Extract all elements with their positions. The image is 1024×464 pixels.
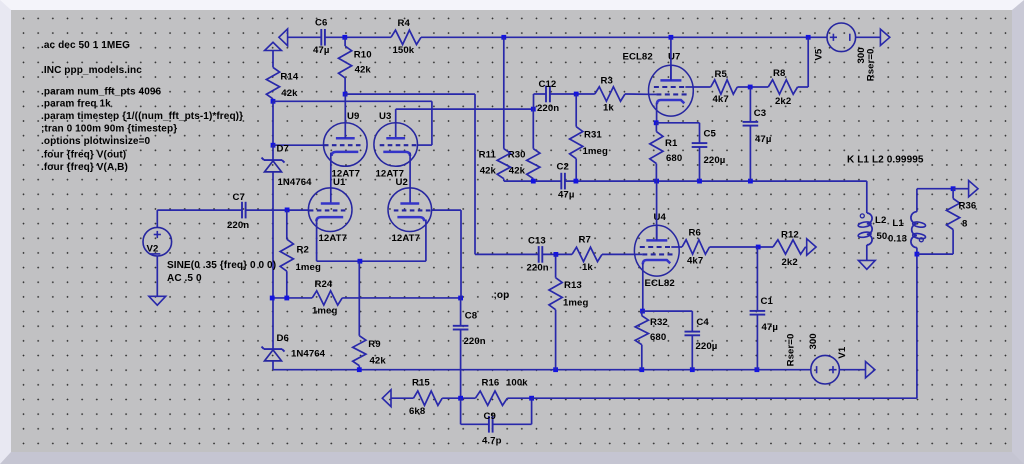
- svg-text:C2: C2: [557, 162, 569, 173]
- svg-text:R15: R15: [412, 378, 430, 389]
- label R11: [479, 150, 497, 161]
- label U7: [668, 52, 680, 63]
- svg-text:K L1 L2 0.99995: K L1 L2 0.99995: [847, 155, 924, 166]
- ground port at C6 input: [279, 29, 288, 46]
- svg-text:42k: 42k: [480, 166, 497, 177]
- wire U3 grid riser: [431, 101, 433, 145]
- value V2 SINE: [167, 260, 276, 271]
- capacitor C9: [489, 416, 493, 433]
- value R15: [409, 406, 426, 417]
- label R5: [715, 69, 728, 80]
- svg-text:1k: 1k: [603, 103, 614, 114]
- directive text ';tran 0 100m 90m {ti': [41, 124, 177, 135]
- wire D7 to D6: [272, 172, 274, 349]
- junction C12/R30: [531, 107, 536, 112]
- junction rail/R11 riser: [501, 35, 506, 40]
- value D7: [278, 177, 313, 188]
- capacitor C8: [453, 326, 469, 330]
- label R16: [482, 378, 500, 389]
- resistor R8: [768, 80, 797, 94]
- svg-text:U7: U7: [668, 52, 680, 63]
- wire U4 plate lead: [656, 181, 658, 240]
- svg-text:R1: R1: [665, 138, 678, 149]
- wire C7 left: [157, 209, 242, 211]
- svg-text:100k: 100k: [506, 378, 528, 389]
- junction R6/R12/C1: [756, 245, 761, 250]
- value L1: [888, 233, 907, 244]
- value R4: [393, 45, 415, 56]
- directive text 'K L1 L2 0.99995': [847, 155, 924, 166]
- resistor R5: [693, 80, 737, 94]
- wire R6 to R12: [710, 246, 774, 248]
- junction C12/R3/R31: [574, 92, 579, 97]
- junction rail/R13: [553, 367, 558, 372]
- svg-text:Rser=0: Rser=0: [785, 334, 796, 367]
- svg-text:;op: ;op: [494, 290, 510, 301]
- wire D column to R24: [272, 297, 312, 299]
- value C12: [537, 103, 559, 114]
- label C7: [233, 192, 245, 203]
- phase dot L1: [919, 238, 923, 242]
- label V1: [837, 346, 848, 358]
- svg-text:220n: 220n: [227, 220, 249, 231]
- output port arrow: [969, 181, 978, 197]
- wire C3 top stub: [749, 87, 751, 122]
- capacitor C6: [321, 29, 325, 46]
- ground left of R15: [382, 390, 391, 407]
- svg-text:R6: R6: [689, 228, 701, 239]
- wire U3 grid stub: [418, 144, 432, 146]
- capacitor C4: [685, 332, 701, 336]
- value D6: [291, 349, 326, 360]
- junction R24/C8/U2 grid: [458, 296, 463, 301]
- svg-text:U1: U1: [333, 177, 346, 188]
- svg-text:12AT7: 12AT7: [319, 233, 347, 244]
- capacitor C13: [539, 246, 543, 263]
- junction R36 top: [951, 186, 956, 191]
- label D7: [277, 143, 289, 154]
- svg-text:47µ: 47µ: [313, 45, 329, 56]
- value R30: [509, 166, 526, 177]
- label U2: [396, 177, 408, 188]
- wire U2 grid stub: [431, 209, 461, 211]
- svg-text:.param num_fft_pts 4096: .param num_fft_pts 4096: [41, 86, 162, 97]
- svg-text:4k7: 4k7: [687, 255, 703, 266]
- label D6: [277, 333, 289, 344]
- label C8: [465, 311, 478, 322]
- svg-text:47µ: 47µ: [762, 322, 778, 333]
- svg-text:V2: V2: [147, 244, 159, 255]
- svg-text:ECL82: ECL82: [645, 278, 675, 289]
- wire L1 bottom lead: [916, 248, 918, 255]
- value C13: [527, 263, 549, 274]
- label V5 Rser: [866, 49, 877, 82]
- svg-text:150k: 150k: [393, 45, 415, 56]
- svg-text:1meg: 1meg: [563, 298, 588, 309]
- svg-text:C9: C9: [484, 411, 496, 422]
- svg-text:50: 50: [877, 231, 888, 242]
- svg-text:8: 8: [962, 219, 968, 230]
- junction rail/R1/U4 plate: [654, 179, 659, 184]
- capacitor C7: [242, 202, 246, 219]
- capacitor C12: [546, 86, 550, 103]
- svg-text:.param timestep {1/((num_fft_p: .param timestep {1/((num_fft_pts-1)*freq…: [41, 111, 243, 122]
- type U7: [623, 52, 653, 63]
- wire C12 drop: [533, 94, 535, 109]
- voltage source V5: [827, 23, 856, 52]
- svg-text:220n: 220n: [464, 336, 486, 347]
- directive text '.options plotwinsize': [41, 136, 151, 147]
- svg-text:2k2: 2k2: [782, 257, 798, 268]
- wire V2 to C7: [156, 210, 158, 227]
- svg-text:1N4764: 1N4764: [278, 177, 313, 188]
- capacitor C5: [692, 143, 708, 147]
- svg-text:R7: R7: [579, 235, 591, 246]
- wire C9 right stub: [493, 423, 532, 425]
- ground right of V1: [866, 362, 875, 378]
- wire C7 to U1 grid: [246, 209, 309, 211]
- label L2: [875, 215, 886, 226]
- pentode U7 (ECL82): [648, 65, 693, 116]
- label R36: [959, 200, 977, 211]
- svg-text:D7: D7: [277, 143, 289, 154]
- wire C9 left stub: [461, 423, 489, 425]
- junction R5/R8/C3: [748, 85, 753, 90]
- svg-text:C6: C6: [315, 18, 327, 29]
- wire U4 cathode lead: [642, 263, 644, 311]
- svg-text:R13: R13: [564, 280, 582, 291]
- value R1: [666, 153, 682, 164]
- voltage source V1: [811, 355, 840, 384]
- svg-text:220n: 220n: [527, 263, 549, 274]
- label C5: [704, 129, 717, 140]
- value R36: [962, 219, 968, 230]
- svg-text:.options plotwinsize=0: .options plotwinsize=0: [41, 136, 151, 147]
- value R9: [370, 355, 387, 366]
- wire C12 left stub: [534, 93, 547, 95]
- svg-text:R5: R5: [715, 69, 728, 80]
- svg-text:42k: 42k: [370, 355, 387, 366]
- value C5: [704, 155, 726, 166]
- triode U2 (12AT7): [388, 188, 432, 232]
- resistor R30: [527, 109, 540, 181]
- junction U7 cathode/R1/C5: [654, 120, 659, 125]
- junction C13/R13/R7: [554, 252, 559, 257]
- wire C9 left drop: [460, 398, 462, 424]
- label V5: [813, 48, 824, 60]
- phase dot L2: [860, 214, 864, 218]
- svg-text:1meg: 1meg: [312, 306, 337, 317]
- svg-text:V5: V5: [813, 48, 824, 60]
- label C13: [528, 236, 546, 247]
- voltage source V2: [143, 227, 172, 256]
- svg-text:680: 680: [650, 332, 666, 343]
- resistor R1: [650, 123, 663, 181]
- value C3: [755, 134, 771, 145]
- wire D7 junction to U9 grid: [273, 144, 324, 146]
- directive text '.four {freq} V(A,B)': [41, 162, 128, 173]
- svg-text:2k2: 2k2: [775, 96, 791, 107]
- ground below L2: [858, 260, 875, 269]
- wire C6 left: [288, 36, 322, 38]
- junction R2/R24: [284, 296, 289, 301]
- label R7: [579, 235, 591, 246]
- wire R16 to L1 column: [532, 397, 917, 399]
- wire R3 to U7: [625, 93, 649, 95]
- svg-text:R24: R24: [315, 279, 333, 290]
- triode U3 (12AT7): [374, 123, 418, 167]
- wire R8 riser up: [807, 37, 809, 87]
- wire U7 cathode lead: [656, 103, 658, 123]
- junction R15/R16/C8/C9: [458, 396, 463, 401]
- svg-text:42k: 42k: [355, 65, 372, 76]
- label R6: [689, 228, 701, 239]
- wire R7 to U4: [602, 253, 635, 255]
- wire V2 bottom: [156, 256, 158, 296]
- wire U7 plate lead: [670, 37, 672, 80]
- junction R10 bottom: [343, 92, 348, 97]
- label U4: [654, 212, 667, 223]
- wire mid rail right: [565, 180, 867, 182]
- junction D7 top / U9 grid: [271, 143, 276, 148]
- svg-text:1meg: 1meg: [296, 262, 321, 273]
- value R16: [506, 378, 528, 389]
- svg-text:C12: C12: [539, 79, 557, 90]
- svg-text:4k7: 4k7: [713, 94, 729, 105]
- directive text '.INC ppp_models.inc': [41, 65, 142, 76]
- svg-text:L1: L1: [892, 218, 904, 229]
- wire C3 bottom stub: [749, 126, 751, 181]
- wire L2 to ground: [866, 245, 868, 261]
- value C2: [558, 190, 574, 201]
- svg-text:.four {freq} V(A,B): .four {freq} V(A,B): [41, 162, 128, 173]
- value R8: [775, 96, 791, 107]
- wire C4 bottom stub: [691, 335, 693, 369]
- junction rail/C5: [697, 179, 702, 184]
- svg-text:0.13: 0.13: [888, 233, 907, 244]
- wire D7 top lead: [272, 145, 274, 160]
- label L1: [892, 218, 904, 229]
- wire R24 to C8 column: [342, 297, 460, 299]
- wire U2 cathode drop: [425, 220, 427, 262]
- svg-text:47µ: 47µ: [755, 134, 771, 145]
- svg-text:C5: C5: [704, 129, 717, 140]
- wire C13 to R7: [542, 253, 572, 255]
- inductor L1: [911, 212, 926, 248]
- svg-text:R3: R3: [601, 76, 613, 87]
- resistor R32: [635, 311, 648, 370]
- value L2: [877, 231, 888, 242]
- svg-text:1k: 1k: [582, 262, 593, 273]
- wire feedback riser: [474, 94, 476, 254]
- junction cathode loop/R9: [358, 259, 363, 264]
- wire V1 to ground: [839, 369, 865, 371]
- value R24: [312, 306, 337, 317]
- directive text '.four {freq} V(out)': [41, 150, 126, 161]
- wire R10 junction right: [345, 93, 475, 95]
- wire U7 cathode to C5: [656, 122, 699, 124]
- resistor R2: [280, 210, 293, 298]
- svg-text:.four {freq} V(out): .four {freq} V(out): [41, 150, 126, 161]
- wire R12 to ground: [806, 246, 807, 248]
- resistor R3: [595, 87, 625, 101]
- wire U1 cathode drop: [316, 220, 318, 262]
- wire R36 to out port: [953, 188, 969, 190]
- svg-text:R36: R36: [959, 200, 977, 211]
- svg-text:220n: 220n: [537, 103, 559, 114]
- resistor R31: [570, 94, 583, 181]
- label C4: [696, 317, 709, 328]
- wire L1 top lead: [916, 189, 918, 212]
- svg-text:Rser=0: Rser=0: [866, 49, 877, 82]
- directive text '.param num_fft_pts 4': [41, 86, 162, 97]
- svg-text:R16: R16: [482, 378, 500, 389]
- ground right of R12: [807, 239, 816, 255]
- wire C1 bottom stub: [756, 315, 758, 370]
- junction rail/R9: [357, 367, 362, 372]
- wire R5 to R8: [737, 86, 768, 88]
- wire R4 to V5 rail: [421, 36, 827, 38]
- wire rail to L2: [866, 181, 868, 213]
- resistor R4: [391, 30, 421, 44]
- value R12: [782, 257, 798, 268]
- wire cathode loop bottom: [317, 260, 426, 262]
- svg-text:6k8: 6k8: [409, 406, 426, 417]
- label C1: [761, 296, 774, 307]
- value R32: [650, 332, 666, 343]
- label C6: [315, 18, 327, 29]
- label R8: [773, 68, 786, 79]
- junction U4 cathode/R32/C4: [640, 309, 645, 314]
- value C8: [464, 336, 486, 347]
- inductor L2: [858, 213, 872, 245]
- value C7: [227, 220, 249, 231]
- value V2 AC: [167, 273, 202, 284]
- wire R14 to U3 grid riser: [273, 100, 432, 102]
- triode U9 (12AT7): [324, 123, 368, 167]
- svg-text:R2: R2: [297, 245, 309, 256]
- wire U3 plate lead: [395, 109, 397, 138]
- svg-text:1N4764: 1N4764: [291, 349, 326, 360]
- wire R32 to C4: [643, 310, 693, 312]
- junction C6/R10: [342, 35, 347, 40]
- type U9: [332, 169, 360, 180]
- wire U3 plate row: [396, 108, 534, 110]
- svg-text:C13: C13: [528, 236, 546, 247]
- svg-text:R30: R30: [508, 150, 526, 161]
- capacitor C1: [750, 311, 766, 315]
- ground below V2: [149, 296, 166, 305]
- ground above R14: [265, 42, 282, 50]
- type U4: [645, 278, 675, 289]
- label R12: [781, 230, 799, 241]
- svg-text:680: 680: [666, 153, 682, 164]
- ground right of V5: [880, 29, 889, 45]
- wire C8 top stub: [460, 298, 462, 326]
- value C9: [482, 435, 502, 446]
- wire C8 column upper: [460, 210, 462, 298]
- label C9: [484, 411, 496, 422]
- label R13: [564, 280, 582, 291]
- svg-text:SINE(0 .35 {freq} 0 0 0): SINE(0 .35 {freq} 0 0 0): [167, 260, 276, 271]
- wire D6 to bottom rail: [272, 361, 274, 370]
- value R3: [603, 103, 614, 114]
- wire C5 top stub: [699, 123, 701, 143]
- wire R14 junction to D7: [272, 101, 274, 145]
- svg-text:R9: R9: [368, 339, 380, 350]
- resistor R12: [773, 240, 806, 254]
- resistor R11: [497, 37, 510, 181]
- wire C6 to R4: [325, 36, 391, 38]
- directive text '.ac dec 50 1 1MEG': [41, 40, 130, 51]
- value R11: [480, 166, 497, 177]
- junction R16/C9 right: [529, 396, 534, 401]
- label R31: [584, 129, 602, 140]
- svg-text:U2: U2: [396, 177, 408, 188]
- wire C12 to R3: [550, 93, 595, 95]
- svg-text:V1: V1: [837, 346, 848, 358]
- junction rail/C3: [748, 179, 753, 184]
- svg-text:R11: R11: [479, 150, 497, 161]
- value R5: [713, 94, 729, 105]
- label R3: [601, 76, 613, 87]
- svg-text:220µ: 220µ: [696, 341, 718, 352]
- svg-text:.INC ppp_models.inc: .INC ppp_models.inc: [41, 65, 142, 76]
- wire V5 to ground: [856, 36, 881, 38]
- svg-text:R32: R32: [650, 317, 668, 328]
- type U3: [376, 169, 404, 180]
- label R14: [280, 72, 298, 83]
- wire C9 right riser: [531, 398, 533, 424]
- value C4: [696, 341, 718, 352]
- svg-text:C1: C1: [761, 296, 774, 307]
- svg-text:ECL82: ECL82: [623, 52, 653, 63]
- label C12: [539, 79, 557, 90]
- junction rail/C1: [755, 367, 760, 372]
- capacitor C3: [743, 122, 759, 126]
- resistor R9: [353, 261, 366, 370]
- value V1 300: [808, 333, 819, 349]
- svg-text:C7: C7: [233, 192, 245, 203]
- directive text '.param timestep {1/(': [41, 111, 243, 122]
- svg-text:12AT7: 12AT7: [392, 233, 420, 244]
- resistor R14: [266, 51, 279, 102]
- value R10: [355, 65, 372, 76]
- svg-text:C8: C8: [465, 311, 478, 322]
- resistor R24: [312, 291, 342, 305]
- resistor R10: [339, 37, 352, 94]
- svg-text:U9: U9: [347, 111, 359, 122]
- svg-text:AC .5 0: AC .5 0: [167, 273, 202, 284]
- label R4: [398, 18, 411, 29]
- svg-text:U3: U3: [379, 111, 391, 122]
- svg-text:R31: R31: [584, 129, 602, 140]
- wire L1 column riser: [916, 254, 918, 398]
- value R31: [583, 146, 608, 157]
- junction rail/C4: [690, 367, 695, 372]
- directive text '.param freq 1k': [41, 99, 111, 110]
- resistor R36: [947, 189, 960, 254]
- junction D column/R24: [270, 296, 275, 301]
- label U9: [347, 111, 359, 122]
- wire feedback to C13: [475, 253, 539, 255]
- svg-text:;tran 0 100m 90m {timestep}: ;tran 0 100m 90m {timestep}: [41, 124, 177, 135]
- junction rail/R31: [574, 179, 579, 184]
- triode U1 (12AT7): [308, 188, 352, 232]
- label R24: [315, 279, 333, 290]
- junction rail/R8 riser: [806, 35, 811, 40]
- label R30: [508, 150, 526, 161]
